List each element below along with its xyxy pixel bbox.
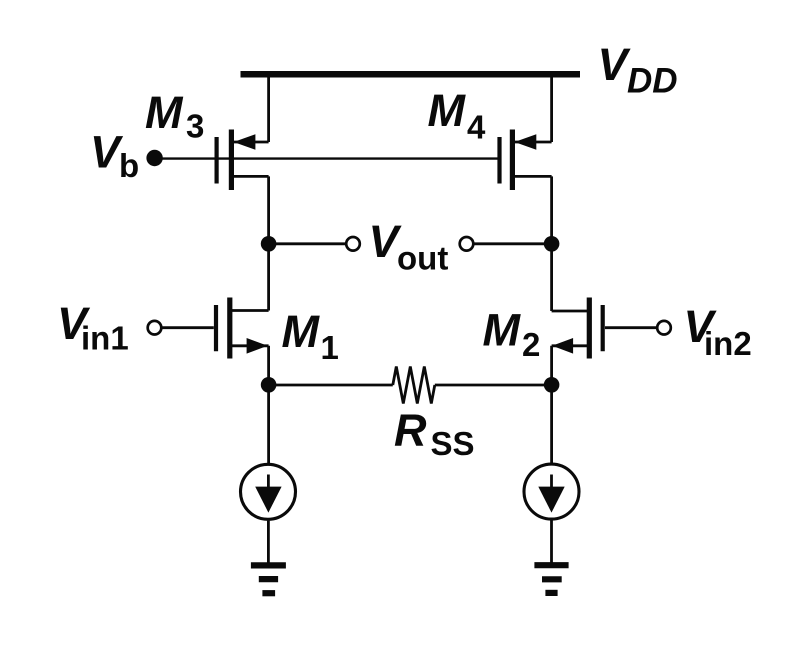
- current source I1: [241, 464, 296, 519]
- pmos M4: [500, 130, 552, 191]
- svg-text:in1: in1: [81, 320, 129, 357]
- node right output junction: [544, 236, 560, 252]
- wire Vin1 to M1 gate: [161, 326, 214, 329]
- svg-text:M: M: [428, 85, 467, 136]
- label M3: [145, 87, 204, 145]
- nmos M1: [216, 298, 269, 359]
- label Vout: [369, 216, 449, 277]
- nmos M2: [552, 298, 603, 359]
- svg-text:2: 2: [522, 326, 540, 363]
- svg-text:out: out: [397, 240, 448, 277]
- label RSS: [394, 405, 475, 462]
- wire M3 source to VDD rail: [267, 74, 270, 142]
- label M4: [428, 85, 487, 146]
- label Vb: [90, 127, 139, 185]
- wire M3 drain down to M1 drain: [267, 176, 270, 310]
- label Vin2: [684, 301, 752, 362]
- svg-text:4: 4: [467, 109, 486, 146]
- wire right output tap: [474, 242, 552, 245]
- pmos M3: [217, 130, 269, 191]
- node Vin1 open terminal: [148, 321, 162, 335]
- label Vin1: [57, 298, 129, 357]
- ground left: [251, 565, 286, 593]
- VDD power rail: [241, 71, 581, 78]
- node right Vout open terminal: [460, 237, 474, 251]
- svg-text:SS: SS: [431, 425, 475, 462]
- wire M2 gate to Vin2: [605, 326, 657, 329]
- svg-text:M: M: [483, 305, 522, 356]
- svg-text:1: 1: [321, 329, 339, 366]
- svg-text:3: 3: [186, 108, 204, 145]
- wire M4 source to VDD rail: [550, 74, 553, 142]
- label VDD: [598, 39, 678, 101]
- ground right: [534, 565, 568, 593]
- resistor RSS: [269, 367, 552, 404]
- svg-text:M: M: [282, 306, 321, 357]
- wire I2 to ground: [550, 520, 553, 564]
- wire gate bus Vb to M3/M4 gates: [155, 157, 500, 159]
- wire M4 drain down to M2 drain: [550, 176, 553, 311]
- svg-text:M: M: [145, 87, 184, 138]
- node left output junction: [261, 236, 277, 252]
- node Vin2 open terminal: [657, 321, 671, 335]
- wire M2 source down to tail node: [550, 346, 553, 463]
- node right tail junction: [544, 377, 560, 393]
- label M1: [282, 306, 339, 366]
- wire I1 to ground: [267, 521, 270, 564]
- current source I2: [524, 464, 579, 519]
- label M2: [483, 305, 541, 364]
- svg-text:DD: DD: [627, 62, 678, 101]
- node left tail junction: [261, 377, 277, 393]
- wire M1 source down to tail node: [267, 346, 270, 463]
- svg-text:b: b: [119, 147, 139, 184]
- node Vb terminal dot: [146, 150, 162, 166]
- svg-text:R: R: [394, 405, 427, 456]
- wire left output tap: [269, 242, 346, 245]
- svg-text:in2: in2: [704, 325, 752, 362]
- node left Vout open terminal: [346, 237, 360, 251]
